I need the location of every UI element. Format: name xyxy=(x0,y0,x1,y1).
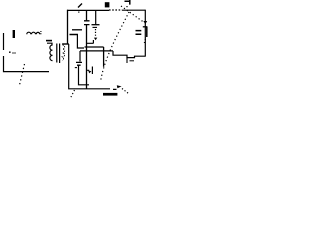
corner x80 down xyxy=(79,51,81,62)
small tick near secondary xyxy=(75,67,77,69)
gang line A (dotted) xyxy=(101,12,130,82)
top wire dashed middle xyxy=(109,9,122,11)
small tick xyxy=(130,60,135,62)
capacitor C2 upper lead xyxy=(86,10,88,20)
long horizontal y51 xyxy=(80,50,113,52)
bottom arrow xyxy=(117,85,122,88)
wire below cap xyxy=(79,66,90,85)
cap bracket plate xyxy=(143,26,148,28)
variable cap dotted arrow xyxy=(95,29,97,36)
variable cap plate xyxy=(92,24,100,26)
wire below arrow xyxy=(87,40,93,43)
capacitor C2 lower wire (long vertical) xyxy=(86,25,88,89)
battery plate long (thin) xyxy=(3,33,5,46)
vertical wire x103 xyxy=(103,47,105,67)
transformer secondary winding xyxy=(63,45,65,60)
node dots xyxy=(9,51,16,54)
capacitor inside box plate1 xyxy=(72,29,82,31)
variable cap lead xyxy=(95,10,97,24)
battery plate short (thick) xyxy=(13,30,15,38)
box left vertical xyxy=(62,10,68,44)
variable cap plate2 xyxy=(93,26,98,28)
cap to ground plates xyxy=(76,62,82,65)
bracket dots xyxy=(144,39,147,43)
step wire right xyxy=(113,51,145,58)
gang line D (dotted) xyxy=(71,90,75,98)
transformer T1 primary lead xyxy=(47,43,52,45)
trimmer arrow tick xyxy=(78,4,82,8)
antenna coil L1 xyxy=(27,32,40,34)
right vertical wire xyxy=(144,10,146,57)
coil end dot xyxy=(40,31,42,34)
transformer core xyxy=(57,44,60,64)
transformer T1 primary winding xyxy=(50,45,53,61)
wire left vertical upper xyxy=(3,46,5,50)
diode arrowhead xyxy=(88,70,91,73)
tick dot xyxy=(78,12,80,13)
gang line B (dotted) xyxy=(121,6,144,22)
gang line C (dotted) xyxy=(20,64,25,85)
transformer secondary top lead xyxy=(63,43,69,45)
capacitor inside box plate2 xyxy=(70,34,79,36)
capacitor equals sign xyxy=(136,31,142,35)
tuning dash xyxy=(46,40,52,42)
wire left vertical lower xyxy=(4,56,50,72)
bottom dash-dot wire xyxy=(106,88,117,91)
diode branch xyxy=(87,69,89,71)
bottom diagonal dots xyxy=(122,89,129,94)
capacitor C2 plates xyxy=(84,21,90,25)
wire from plate2 down xyxy=(77,35,84,48)
ground bar (thick) xyxy=(103,93,117,96)
bracket vertical xyxy=(146,27,148,37)
top wire solid right xyxy=(122,9,145,11)
top wire solid left xyxy=(67,9,109,11)
top right label mark xyxy=(125,0,131,5)
wire mid horizontal y47 xyxy=(85,46,104,48)
diode bar xyxy=(91,67,93,75)
wire secondary down xyxy=(69,44,106,89)
arrowhead down xyxy=(94,38,97,41)
label dot xyxy=(126,6,128,7)
stub at x127 xyxy=(126,58,128,63)
arrowhead on right wire xyxy=(143,21,147,24)
filled component blob xyxy=(105,2,110,7)
